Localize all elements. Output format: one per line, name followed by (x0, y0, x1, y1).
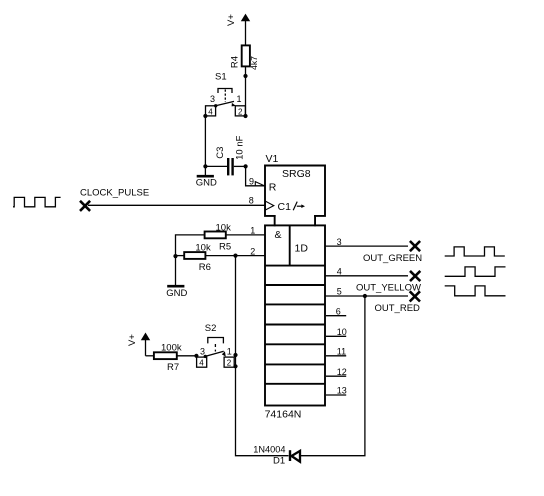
node junction at S1 pin2 (243, 114, 247, 118)
pin 3 wire OUT_GREEN (325, 245, 408, 247)
svg-text:4k7: 4k7 (249, 56, 259, 70)
svg-text:R6: R6 (199, 262, 211, 273)
svg-text:R4: R4 (230, 56, 241, 68)
svg-text:13: 13 (337, 386, 347, 396)
svg-text:3: 3 (210, 94, 215, 104)
resistor R4 (230, 45, 259, 70)
wire C3 right plate to node (234, 165, 246, 167)
node junction OUT_RED (363, 294, 367, 298)
svg-text:CLOCK_PULSE: CLOCK_PULSE (80, 187, 149, 198)
switch S1 (206, 72, 246, 117)
svg-text:4: 4 (199, 359, 204, 368)
svg-text:11: 11 (337, 347, 346, 357)
wire R7 to S2 (177, 355, 197, 357)
node junction S2 pin1 bus (233, 353, 237, 357)
polarity triangle pin 9 (255, 182, 264, 186)
svg-text:3: 3 (337, 237, 342, 247)
svg-text:10: 10 (337, 327, 347, 337)
wire R6 left (176, 255, 185, 257)
svg-text:9: 9 (249, 176, 254, 186)
pin 6 stub (326, 315, 346, 317)
wire R5 left to vertical (176, 235, 205, 256)
svg-text:74164N: 74164N (265, 408, 302, 420)
node X marker OUT_RED (410, 291, 420, 301)
svg-text:10 nF: 10 nF (235, 135, 246, 159)
waveform OUT_RED (445, 286, 506, 296)
node junction S1 pin4 (203, 114, 207, 118)
svg-text:10k: 10k (195, 243, 211, 254)
svg-text:SRG8: SRG8 (282, 168, 311, 180)
svg-text:12: 12 (337, 367, 347, 377)
waveform OUT_GREEN (445, 247, 505, 256)
svg-text:1D: 1D (295, 243, 309, 255)
wire CLOCK_PULSE to pin 8 (88, 204, 265, 206)
switch S2 (197, 323, 235, 368)
diode D1 (253, 445, 300, 467)
node junction C3 right (244, 164, 248, 168)
node junction pin2 bus (233, 254, 237, 258)
svg-text:1N4004: 1N4004 (253, 445, 285, 455)
svg-text:R7: R7 (167, 362, 179, 373)
capacitor C3 (215, 135, 246, 175)
svg-text:2: 2 (227, 359, 232, 368)
connector legs between blocks (275, 215, 315, 226)
svg-text:2: 2 (238, 107, 243, 116)
pin 12 stub (326, 375, 346, 377)
svg-text:&: & (275, 229, 282, 241)
pin 11 stub (326, 355, 346, 357)
wire R6 right to pin 2 (205, 255, 265, 257)
ground GND under R6 (166, 256, 187, 299)
node junction C3 left (203, 164, 207, 168)
svg-text:OUT_GREEN: OUT_GREEN (363, 253, 422, 264)
resistor R7 (154, 343, 182, 373)
svg-text:4: 4 (208, 107, 213, 116)
node X marker OUT_GREEN (410, 241, 420, 251)
svg-text:R: R (269, 181, 277, 193)
svg-text:GND: GND (166, 288, 187, 299)
wire V+ to R4 (245, 21, 247, 45)
C1 clock label with shift arrow (278, 201, 306, 213)
svg-text:5: 5 (337, 287, 342, 297)
svg-text:1: 1 (227, 347, 232, 357)
svg-text:6: 6 (336, 306, 341, 316)
svg-text:3: 3 (200, 347, 205, 357)
wire S1 pin4 down (204, 116, 206, 166)
resistor R5 (205, 222, 232, 252)
power V+ bottom left (127, 333, 150, 356)
node junction S2 pin3 (194, 354, 198, 358)
svg-text:S1: S1 (215, 72, 227, 83)
svg-text:S2: S2 (205, 323, 217, 334)
svg-text:V+: V+ (127, 334, 138, 346)
ground GND under S1 (196, 166, 217, 188)
clock source square wave icon (13, 197, 61, 206)
svg-text:OUT_RED: OUT_RED (375, 303, 421, 314)
svg-text:10k: 10k (216, 222, 232, 233)
node junction R6 left (173, 254, 177, 258)
wire R4 to switch (245, 66, 247, 116)
node junction below R4 (243, 74, 247, 78)
wire to C3 left plate (205, 165, 227, 167)
node X marker CLOCK_PULSE (80, 201, 90, 211)
svg-text:GND: GND (196, 177, 217, 188)
resistor R6 (184, 243, 211, 273)
node junction S2 pin2 bus (233, 364, 237, 368)
node X marker OUT_YELLOW (410, 271, 420, 281)
svg-text:V+: V+ (226, 14, 237, 26)
svg-text:C3: C3 (215, 147, 226, 159)
waveform OUT_YELLOW (445, 267, 506, 276)
wire V+ to R7 (146, 355, 154, 357)
svg-text:4: 4 (337, 267, 342, 277)
svg-text:1: 1 (237, 94, 242, 104)
svg-text:R5: R5 (219, 242, 231, 253)
op IC U1 top control block (265, 166, 325, 216)
svg-text:1: 1 (250, 226, 255, 236)
svg-text:100k: 100k (161, 343, 182, 354)
wire bus pin2 down to diode (236, 256, 289, 456)
pin 13 stub (326, 394, 346, 396)
power V+ top (226, 14, 250, 26)
clock dynamic input triangle (265, 201, 273, 210)
pin 10 stub (326, 335, 346, 337)
wire R5 right to pin 1 (226, 234, 265, 236)
wire diode to OUT_RED branch (301, 296, 365, 456)
svg-text:V1: V1 (266, 153, 279, 165)
wire C3 node to R input pin 9 (246, 166, 265, 185)
svg-text:8: 8 (249, 195, 254, 205)
IC lower register block 74164N (265, 225, 325, 405)
svg-text:C1: C1 (278, 201, 292, 213)
svg-text:2: 2 (250, 246, 255, 256)
pin 4 wire OUT_YELLOW (325, 275, 408, 277)
pin 5 wire OUT_RED (325, 295, 408, 297)
svg-text:D1: D1 (273, 455, 285, 466)
